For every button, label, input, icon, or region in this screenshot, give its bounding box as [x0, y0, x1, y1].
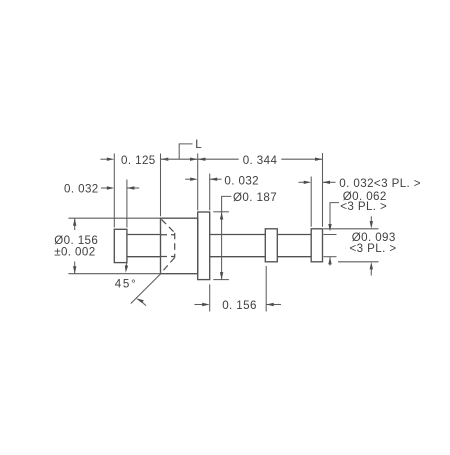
dimension D0.187 leader elbow [222, 196, 232, 212]
dimension 0.156 bottom left arrow [195, 303, 210, 306]
hidden shaft bottom inside body [161, 256, 175, 258]
dimension 0.125 right arrow / L dim left arrow [161, 158, 169, 161]
L label text [195, 138, 202, 151]
dimension D0.156 bottom arrow [73, 262, 76, 274]
extension line flange right edge lower [209, 284, 211, 311]
wire shaft pin-to-body top edge [127, 234, 161, 236]
extension line band top to right [324, 228, 379, 230]
svg-text:L: L [195, 138, 202, 151]
svg-text:<3 PL. >: <3 PL. > [340, 200, 387, 213]
extension line flange right edge upper [209, 174, 211, 211]
dimension 0.032 flange right arrow [210, 178, 222, 181]
svg-text:Ø0. 187: Ø0. 187 [233, 191, 277, 204]
dimension D0.093 down arrow [370, 216, 373, 228]
hidden cone taper bottom diagonal [162, 258, 175, 273]
svg-text:±0. 002: ±0. 002 [54, 246, 95, 259]
extension line band bottom to right [338, 261, 379, 263]
dimension 0.344 right segment [281, 158, 322, 161]
svg-text:0. 032: 0. 032 [64, 182, 99, 195]
L label bracket [179, 144, 192, 159]
dimension line L span [161, 158, 239, 160]
svg-text:<3 PL. >: <3 PL. > [350, 242, 397, 255]
dimension 0.156 bottom right arrow [266, 303, 281, 306]
L dim right arrow [190, 158, 198, 161]
dimension 0.344 left arrow [198, 158, 206, 161]
dimension 0.032 flange left arrow [185, 178, 198, 181]
dimension D0.187 top tick [213, 211, 229, 213]
svg-text:0. 125: 0. 125 [121, 154, 156, 167]
dimension 0.032 3PL right arrow [323, 181, 336, 184]
extension line shaft bottom to right [324, 256, 337, 258]
extension line body top to left [68, 217, 160, 219]
end band (Ø0.093 x 0.032) [311, 229, 322, 262]
dimension 0.032 3PL left arrow [299, 181, 312, 184]
dimension D0.093 text [352, 231, 396, 244]
dimension D0.062 up arrow [328, 257, 331, 266]
extension line end band left edge [310, 177, 312, 227]
middle band (Ø0.093 x 0.032) [265, 229, 277, 262]
extension line shaft top to right [324, 234, 337, 236]
extension line pin left edge [113, 154, 115, 228]
body barrel (Ø0.156) [161, 218, 198, 274]
dimension D0.093 up arrow [370, 262, 373, 276]
extension line pin right edge [126, 180, 128, 228]
chamfer 45 deg extension diagonal [131, 274, 161, 304]
svg-text:0. 032: 0. 032 [224, 174, 259, 187]
dimension D0.062 text 3PL [340, 200, 387, 213]
wire shaft flange-to-midband top edge [210, 234, 266, 236]
hidden cone small end vertical [174, 233, 176, 258]
dimension 0.125 left arrow [100, 158, 114, 161]
chamfer 45 deg text [115, 278, 138, 291]
dimension 0.032 pin left arrow [101, 186, 114, 189]
dimension 0.032 pin right arrow [127, 186, 139, 189]
extension line middle band left edge lower [265, 266, 267, 312]
svg-text:0. 344: 0. 344 [243, 154, 278, 167]
dimension D0.187 line with arrows [220, 212, 223, 280]
dimension D0.156 text line2 [54, 246, 95, 259]
extension line body left edge [160, 154, 162, 217]
dimension 0.032 flange text [224, 174, 259, 187]
extension line part right end [322, 153, 324, 227]
dimension D0.187 text [233, 191, 277, 204]
extension line flange left edge [197, 154, 199, 211]
svg-text:0. 156: 0. 156 [222, 299, 257, 312]
dimension D0.093 text 3PL [350, 242, 397, 255]
hidden shaft top inside body [161, 234, 175, 236]
chamfer 45 deg leader arrow [136, 298, 146, 305]
dimension D0.156 text line1 [54, 234, 98, 247]
dimension 0.344 text [243, 154, 278, 167]
wire shaft midband-to-endband bottom edge [277, 256, 311, 258]
svg-text:0. 032<3 PL. >: 0. 032<3 PL. > [339, 177, 421, 190]
dimension 0.156 bottom text [222, 299, 257, 312]
extension line body bottom to left [68, 273, 161, 275]
corner leader arrow below pin [125, 259, 128, 273]
wire shaft flange-to-midband bottom edge [210, 256, 266, 258]
dimension 0.032 pin text [64, 182, 99, 195]
wire shaft pin-to-body bottom edge [127, 256, 161, 258]
dimension D0.187 bottom tick [213, 279, 229, 281]
flange (Ø0.187 x 0.032) [198, 212, 210, 280]
pin left (Ø0.093 x 0.032) [114, 229, 127, 262]
wire shaft midband-to-endband top edge [277, 234, 311, 236]
svg-text:45°: 45° [115, 278, 138, 291]
dimension D0.062 leader bracket with down arrow [328, 203, 339, 232]
dimension D0.062 text [343, 190, 387, 203]
dimension 0.032 3PL text [339, 177, 421, 190]
hidden cone taper top diagonal [162, 220, 175, 233]
dimension 0.125 text [121, 154, 156, 167]
dimension D0.156 top arrow [73, 218, 76, 230]
